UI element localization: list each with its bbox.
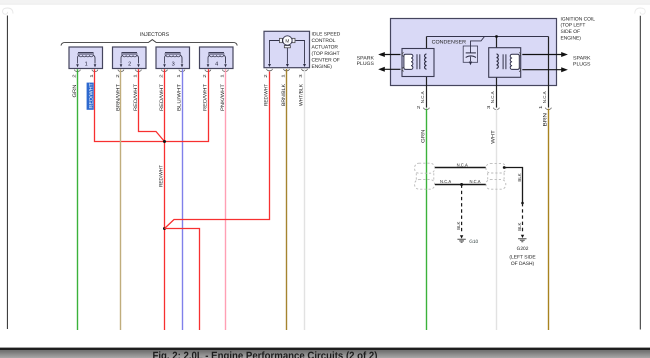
svg-text:OF DASH): OF DASH) bbox=[511, 261, 535, 267]
svg-text:N.C.A: N.C.A bbox=[542, 91, 547, 103]
connector dashed right lower bbox=[486, 180, 506, 190]
label RED/WHT highlighted bbox=[87, 83, 94, 110]
wire RED/WHT injector3 pin2 main run bbox=[164, 69, 166, 330]
svg-text:N.C.A: N.C.A bbox=[469, 179, 480, 184]
svg-text:SIDE OF: SIDE OF bbox=[561, 29, 581, 35]
ignition coil pin 2 cup bbox=[424, 108, 430, 110]
svg-text:BRN/BLK: BRN/BLK bbox=[281, 83, 287, 106]
ignition coil pin 3 cup bbox=[494, 108, 500, 110]
label G202 bbox=[509, 246, 536, 267]
wire RED/WHT injector2 pin1 bbox=[139, 69, 165, 141]
injector 3 bbox=[156, 47, 190, 69]
svg-text:N.C.A: N.C.A bbox=[420, 91, 425, 103]
brace over injectors bbox=[61, 40, 237, 46]
injector 1 bbox=[69, 47, 103, 69]
svg-text:M: M bbox=[285, 38, 289, 44]
svg-text:WHT/BLK: WHT/BLK bbox=[298, 83, 304, 106]
svg-text:1: 1 bbox=[85, 62, 88, 68]
connector dashed left lower bbox=[415, 180, 435, 190]
text spark plugs right bbox=[573, 56, 591, 68]
ignition coil transformer right bbox=[489, 48, 521, 78]
wire BRN/WHT injector2 pin2 bbox=[120, 69, 122, 330]
svg-text:RED/WHT: RED/WHT bbox=[89, 83, 95, 109]
wire coil pin3 vertical bbox=[496, 37, 498, 108]
junction splice BLK right bbox=[503, 166, 506, 169]
svg-text:RED/WHT: RED/WHT bbox=[159, 165, 165, 187]
wire WHT coil pin3 bbox=[496, 109, 498, 330]
svg-text:N.C.A: N.C.A bbox=[490, 91, 495, 103]
svg-text:BRN/WHT: BRN/WHT bbox=[115, 84, 121, 111]
wire RED/WHT injector1 pin1 bbox=[95, 69, 164, 141]
svg-text:CONTROL: CONTROL bbox=[312, 38, 336, 44]
svg-text:GRN: GRN bbox=[421, 129, 427, 143]
frame left border bbox=[6, 16, 8, 330]
junction splice NCA bbox=[460, 183, 463, 186]
ground symbol G202 bbox=[518, 239, 526, 242]
svg-text:BLK: BLK bbox=[517, 222, 522, 230]
arrow into G10 bbox=[460, 235, 463, 238]
svg-text:SPARK: SPARK bbox=[573, 56, 591, 62]
svg-text:RED/WHT: RED/WHT bbox=[202, 84, 208, 111]
wire BLU/WHT injector3 pin1 bbox=[182, 69, 184, 330]
svg-text:CONDENSER: CONDENSER bbox=[432, 39, 467, 45]
svg-text:(TOP RIGHT: (TOP RIGHT bbox=[312, 51, 340, 57]
actuator internal wires bbox=[268, 41, 306, 68]
svg-text:WHT: WHT bbox=[491, 130, 497, 144]
connector dashed left upper bbox=[415, 163, 435, 173]
svg-text:RED/WHT: RED/WHT bbox=[133, 84, 139, 111]
svg-text:2: 2 bbox=[128, 62, 131, 68]
ground symbol G10 bbox=[457, 239, 465, 242]
svg-text:PNK/WHT: PNK/WHT bbox=[220, 84, 226, 111]
svg-text:IGNITION COIL: IGNITION COIL bbox=[561, 16, 596, 22]
wire RED/WHT injector4 pin2 bbox=[166, 69, 209, 141]
arrows to spark plugs right bbox=[522, 52, 568, 72]
ignition coil transformer left bbox=[402, 49, 434, 77]
svg-text:ACTUATOR: ACTUATOR bbox=[312, 45, 339, 51]
wire BRN/BLK actuator pin1 bbox=[286, 69, 288, 330]
svg-text:(LEFT SIDE: (LEFT SIDE bbox=[509, 255, 536, 261]
injector 2 bbox=[113, 47, 147, 69]
wire red branch down bbox=[165, 229, 200, 331]
svg-text:G202: G202 bbox=[517, 246, 529, 252]
svg-text:BLK: BLK bbox=[517, 173, 522, 181]
svg-text:BRN: BRN bbox=[543, 113, 549, 127]
svg-text:Fig. 2: 2.0L - Engine Performa: Fig. 2: 2.0L - Engine Performance Circui… bbox=[153, 350, 378, 358]
wire PNK/WHT injector4 pin1 bbox=[225, 69, 227, 330]
svg-text:N.C.A: N.C.A bbox=[457, 162, 468, 167]
wire coil pin2 vertical bbox=[426, 37, 428, 108]
injector 2 pin cups bbox=[118, 70, 141, 72]
svg-text:PLUGS: PLUGS bbox=[357, 61, 375, 67]
junction splice injectors red bbox=[163, 140, 166, 143]
condenser capacitor bbox=[463, 36, 484, 65]
injector 4 bbox=[200, 47, 234, 69]
svg-text:G10: G10 bbox=[469, 239, 478, 245]
junction splice 2 red bbox=[163, 227, 166, 230]
wire coil pin1 vertical bbox=[548, 37, 550, 108]
wire BLK solid right bbox=[504, 168, 522, 204]
ignition coil pin 1 cup bbox=[546, 108, 552, 110]
wire BLK dashed to G10 bbox=[461, 185, 463, 234]
injector 3 pin cups bbox=[162, 70, 185, 72]
svg-text:BLK: BLK bbox=[456, 221, 461, 229]
svg-text:INJECTORS: INJECTORS bbox=[140, 32, 169, 38]
idle speed control actuator box bbox=[264, 31, 310, 67]
connector dashed right links bbox=[488, 173, 504, 180]
injector 1 pin cups bbox=[75, 70, 98, 72]
svg-text:RED/WHT: RED/WHT bbox=[263, 84, 269, 106]
wire N.C.A lower bbox=[435, 184, 486, 186]
connector dashed left links bbox=[416, 173, 434, 179]
injector 4 pin cups bbox=[205, 70, 228, 72]
svg-text:IDLE SPEED: IDLE SPEED bbox=[312, 31, 341, 37]
svg-text:SPARK: SPARK bbox=[357, 55, 375, 61]
svg-text:N.C.A: N.C.A bbox=[440, 179, 451, 184]
svg-text:BLU/WHT: BLU/WHT bbox=[176, 84, 182, 111]
splice dot BLK bbox=[521, 202, 524, 205]
svg-text:RED/WHT: RED/WHT bbox=[159, 84, 165, 111]
text spark plugs left bbox=[357, 55, 375, 66]
wire internal bus top bbox=[427, 36, 549, 38]
frame right border bbox=[639, 16, 641, 330]
connector dashed right upper bbox=[486, 163, 506, 173]
arrow into G202 bbox=[521, 235, 524, 238]
motor M symbol bbox=[280, 36, 296, 48]
wire BLK dashed to G202 bbox=[522, 203, 524, 233]
ignition coil outer box bbox=[391, 19, 557, 86]
svg-text:3: 3 bbox=[172, 62, 175, 68]
wire GRN injector1 pin2 bbox=[77, 69, 79, 330]
actuator pin cups bbox=[267, 69, 308, 71]
wire red branch to actuator bbox=[165, 72, 270, 229]
arrows to spark plugs left bbox=[378, 52, 400, 72]
text idle speed control actuator location bbox=[312, 31, 341, 70]
wire BRN coil pin1 bbox=[548, 109, 550, 330]
wire WHT/BLK actuator pin3 bbox=[304, 69, 306, 330]
wire GRN coil pin2 bbox=[426, 109, 428, 330]
text ignition coil location bbox=[561, 16, 596, 41]
svg-text:4: 4 bbox=[215, 62, 218, 68]
svg-text:ENGINE): ENGINE) bbox=[312, 64, 333, 70]
svg-text:CENTER OF: CENTER OF bbox=[312, 58, 340, 64]
svg-text:ENGINE): ENGINE) bbox=[561, 35, 582, 41]
svg-text:GRN: GRN bbox=[72, 84, 78, 97]
junction dot condenser bus bbox=[495, 35, 498, 38]
svg-text:PLUGS: PLUGS bbox=[573, 61, 591, 67]
svg-text:(TOP LEFT: (TOP LEFT bbox=[561, 23, 586, 29]
wire N.C.A upper bbox=[435, 167, 486, 169]
